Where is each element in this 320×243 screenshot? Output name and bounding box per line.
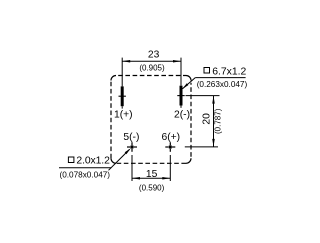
callout 6.7x1.2: value text: [212, 67, 246, 78]
svg-text:1(+): 1(+): [114, 109, 133, 120]
svg-text:15: 15: [146, 169, 158, 180]
callout 6.7x1.2: square symbol: [204, 68, 210, 74]
dimension 20: value text: [201, 113, 212, 125]
svg-text:(0.590): (0.590): [139, 184, 165, 193]
pin 2 slot: [177, 86, 184, 108]
svg-text:2(-): 2(-): [174, 109, 190, 120]
dimension 20: dimension line with arrows: [212, 96, 215, 147]
dimension 15: inch value (0.590): [139, 184, 165, 193]
callout 2.0x1.2: value text: [76, 156, 110, 167]
pin 1 slot: [119, 86, 126, 108]
dimension 15: extension line left: [131, 155, 133, 181]
pin 5 label 5(-): [123, 132, 139, 143]
callout 6.7x1.2: leader line to pin 2: [182, 78, 246, 90]
pin 6 label 6(+): [162, 132, 181, 143]
dimension 20: inch value (0.787): [213, 108, 222, 134]
svg-text:(0.078x0.047): (0.078x0.047): [60, 171, 111, 180]
callout 2.0x1.2: leader line to pin 5: [59, 148, 131, 170]
pin 2 label 2(-): [174, 109, 190, 120]
dimension 23: dimension line with arrows: [122, 60, 181, 63]
callout 6.7x1.2: inch value (0.263x0.047): [197, 80, 248, 89]
dimension 23: value text: [148, 49, 160, 60]
svg-text:(0.905): (0.905): [139, 63, 165, 72]
svg-text:6.7x1.2: 6.7x1.2: [212, 67, 246, 78]
dimension 15: extension line right: [169, 155, 171, 181]
callout 2.0x1.2: square symbol: [68, 157, 74, 163]
svg-text:20: 20: [201, 113, 212, 125]
svg-text:2.0x1.2: 2.0x1.2: [76, 156, 110, 167]
dimension 20: extension line bottom: [185, 146, 218, 148]
svg-text:6(+): 6(+): [162, 132, 181, 143]
callout 2.0x1.2: inch value (0.078x0.047): [60, 171, 111, 180]
svg-text:(0.263x0.047): (0.263x0.047): [197, 80, 248, 89]
pin 1 label 1(+): [114, 109, 133, 120]
svg-text:(0.787): (0.787): [213, 108, 222, 134]
dimension 15: value text: [146, 169, 158, 180]
dimension 23: extension line left: [121, 58, 123, 87]
dimension 23: extension line right: [180, 58, 182, 86]
dimension 20: extension line top: [186, 95, 220, 97]
svg-text:23: 23: [148, 49, 160, 60]
relay body outline (dashed): [111, 76, 191, 164]
svg-text:5(-): 5(-): [123, 132, 139, 143]
dimension 15: dimension line with arrows: [132, 177, 170, 180]
pin 6 crosshair: [165, 142, 175, 152]
pin 5 crosshair: [127, 142, 137, 152]
dimension 23: inch value (0.905): [139, 63, 165, 72]
